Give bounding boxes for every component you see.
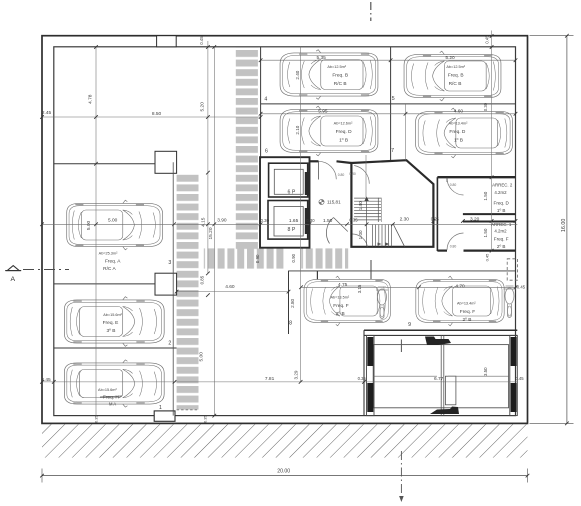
svg-text:1º B: 1º B [339, 138, 348, 144]
svg-text:6 P: 6 P [288, 190, 296, 196]
svg-text:Ab=12.5m²: Ab=12.5m² [327, 65, 346, 69]
svg-text:0.85: 0.85 [200, 275, 205, 284]
svg-text:5.95: 5.95 [318, 108, 328, 114]
svg-text:Freq. F: Freq. F [494, 237, 509, 242]
left door jambs (black) [367, 337, 373, 366]
motorcycle 2 [504, 286, 516, 318]
vertical dim line x207.9 [207, 41, 209, 273]
global horizontal dimension line y223.5 [42, 223, 517, 225]
left bay divider y284 [54, 283, 155, 285]
svg-text:R/C B: R/C B [449, 81, 462, 87]
svg-text:1.50: 1.50 [483, 228, 488, 237]
svg-text:ARREC. 2: ARREC. 2 [492, 182, 513, 187]
ARREC.2 door [447, 178, 464, 195]
svg-text:5: 5 [392, 96, 395, 102]
bottom dimension line 20.00 [42, 475, 528, 477]
svg-text:Ab=15.6m²: Ab=15.6m² [98, 388, 117, 392]
svg-text:16.00: 16.00 [561, 219, 567, 233]
parking front edge x173 [172, 162, 174, 415]
stair center line with arrow [366, 198, 368, 247]
svg-text:0.35: 0.35 [358, 376, 367, 381]
staircase lower flight risers [371, 225, 373, 247]
lobby left door arc [354, 166, 369, 184]
svg-text:7: 7 [391, 148, 394, 154]
right door jambs (black) [511, 337, 517, 366]
svg-text:0.90: 0.90 [291, 253, 296, 262]
car bay1 [64, 360, 164, 407]
car bay3 (Freq. A) [67, 200, 163, 250]
machine room top wall [364, 329, 517, 331]
svg-text:Ab=13.4m²: Ab=13.4m² [457, 302, 476, 306]
svg-text:3.20: 3.20 [470, 216, 480, 222]
right dimension line 16.00 [566, 36, 568, 424]
svg-text:4.15: 4.15 [201, 217, 207, 227]
svg-text:0.30: 0.30 [306, 218, 315, 223]
staircase upper flight treads [354, 197, 381, 199]
svg-text:0.25: 0.25 [431, 216, 440, 221]
horizontal dimension line y117 [42, 116, 261, 118]
top car-bay dimension line y60 [261, 59, 516, 61]
svg-text:Freq. D: Freq. D [336, 129, 353, 135]
lower car-bay dimension line y287.5 [301, 286, 517, 288]
car bay7 (Freq. D) [416, 108, 513, 158]
vertical dim line x366 upper [365, 155, 367, 197]
corridor bottom door [326, 218, 347, 244]
ramp hatch band V2 (top vertical ramp) [236, 47, 258, 250]
column top wall [157, 36, 177, 47]
left bay divider y163 [54, 163, 155, 165]
svg-text:4.2m2: 4.2m2 [494, 190, 507, 195]
svg-text:3.90: 3.90 [217, 217, 227, 223]
svg-text:8.50: 8.50 [152, 111, 162, 117]
svg-text:5.00: 5.00 [108, 218, 118, 224]
elevator cab U1 (6P) [269, 163, 308, 197]
svg-text:4.78: 4.78 [88, 94, 94, 104]
svg-text:1.50: 1.50 [483, 191, 488, 200]
svg-text:5.00: 5.00 [86, 221, 92, 231]
svg-text:3.50: 3.50 [483, 367, 488, 376]
svg-text:4.70: 4.70 [455, 284, 465, 290]
svg-text:Freq. D: Freq. D [449, 129, 466, 135]
svg-text:5.20: 5.20 [445, 55, 455, 61]
svg-text:8 P: 8 P [288, 227, 296, 233]
wall x260 top [260, 47, 262, 159]
svg-text:0.45: 0.45 [517, 284, 526, 289]
svg-text:Ab=12.6m²: Ab=12.6m² [334, 122, 353, 126]
lift guide rails [440, 335, 442, 415]
second car-bay dimension line y113.6 [261, 113, 516, 115]
svg-text:Ab=13.5m²: Ab=13.5m² [330, 295, 349, 299]
wall divider x390 [390, 47, 392, 161]
lobby outline [351, 160, 433, 247]
vertical dim line x300.6 [300, 47, 302, 382]
inner wall line [54, 47, 516, 416]
left bay divider y348 [54, 347, 177, 349]
svg-text:1.00: 1.00 [358, 230, 363, 239]
car bay6 (Freq. D) [280, 106, 378, 156]
svg-text:4.75: 4.75 [338, 282, 348, 288]
column mid 2 [155, 273, 177, 295]
svg-text:9: 9 [408, 322, 411, 328]
svg-text:2.30: 2.30 [400, 217, 410, 223]
svg-text:0.35: 0.35 [95, 416, 99, 423]
svg-text:Freq. B: Freq. B [448, 72, 464, 78]
car lift dashed projection [507, 259, 517, 280]
section marker A [7, 266, 19, 271]
wall x288 lower [288, 271, 290, 334]
svg-text:1.40: 1.40 [358, 201, 363, 210]
svg-text:ARREC. 1: ARREC. 1 [491, 222, 512, 227]
ramp hatch band V1 (left vertical ramp) [177, 173, 199, 410]
svg-text:0.80: 0.80 [450, 245, 457, 249]
svg-text:1.50: 1.50 [323, 218, 333, 224]
svg-text:3: 3 [168, 260, 171, 266]
svg-text:0.45: 0.45 [199, 36, 204, 45]
motorcycle 1 [376, 287, 388, 319]
svg-text:Freq. F: Freq. F [333, 303, 349, 309]
svg-text:M A: M A [109, 402, 116, 407]
svg-text:A: A [11, 276, 16, 283]
machine room left wall [363, 330, 365, 415]
elevator shaft walls [260, 157, 310, 248]
elevator doors [305, 172, 309, 195]
svg-text:0.90: 0.90 [255, 254, 260, 263]
svg-text:0.80: 0.80 [450, 183, 457, 187]
lift mechanism top (black) [425, 337, 451, 346]
ARREC.2 storage room walls [437, 176, 515, 178]
corridor top wall with door [310, 160, 319, 162]
svg-text:Ab=15.6m²: Ab=15.6m² [103, 313, 122, 317]
svg-text:20.00: 20.00 [277, 469, 290, 475]
svg-text:4.60: 4.60 [454, 108, 464, 114]
car bay5 (Freq. B) [404, 51, 501, 101]
svg-text:5.20: 5.20 [200, 102, 206, 112]
svg-text:0.45: 0.45 [484, 253, 489, 262]
lift platform rect [445, 376, 456, 405]
perimeter ground hatch strip (bottom) [42, 424, 528, 457]
svg-text:2º B: 2º B [497, 244, 506, 249]
car bay4 (Freq. B) [280, 50, 378, 100]
ARREC.1 door [447, 233, 464, 250]
svg-text:0.30: 0.30 [261, 218, 270, 223]
svg-text:Freq. D: Freq. D [494, 200, 510, 205]
svg-text:6: 6 [265, 149, 268, 155]
svg-text:1.65: 1.65 [289, 218, 299, 224]
stair break diagonal [393, 224, 405, 247]
svg-text:4.60: 4.60 [225, 284, 235, 290]
svg-text:0.80: 0.80 [349, 172, 356, 176]
svg-text:R/C B: R/C B [334, 81, 347, 87]
corridor right wall x433-437 [436, 177, 438, 251]
svg-text:0.45: 0.45 [515, 376, 524, 381]
svg-text:Freq. F: Freq. F [460, 309, 476, 315]
dimension line y382 [42, 381, 517, 383]
corridor top door arc [319, 161, 337, 179]
svg-text:5.00: 5.00 [198, 352, 204, 362]
svg-text:3.29: 3.29 [294, 370, 299, 379]
dimension line y291.7 [177, 291, 289, 293]
vertical dim line x96 [95, 47, 97, 416]
svg-text:0.45: 0.45 [485, 35, 490, 44]
wall stub x317 [316, 271, 318, 280]
svg-text:3º B: 3º B [107, 328, 116, 334]
svg-text:Ab=25.3m²: Ab=25.3m² [99, 252, 118, 256]
ramp hatch band H (horizontal ramp) [204, 248, 284, 268]
vertical dim line x491.6 [491, 31, 493, 252]
svg-text:0.30: 0.30 [483, 102, 488, 111]
column mid 1 [155, 151, 177, 173]
svg-text:Freq. E: Freq. E [103, 320, 119, 326]
platform line [373, 375, 437, 377]
svg-text:Freq. B: Freq. B [332, 72, 348, 78]
car bay8 (Freq. F) [304, 276, 390, 326]
svg-text:1º B: 1º B [497, 208, 506, 213]
svg-text:2.40: 2.40 [295, 70, 300, 79]
svg-text:1º B: 1º B [454, 138, 463, 144]
svg-text:115,81: 115,81 [327, 200, 341, 205]
svg-text:2.45: 2.45 [42, 110, 52, 116]
svg-text:R/C A: R/C A [103, 266, 116, 272]
dim line x405 [405, 104, 407, 160]
svg-text:7.81: 7.81 [265, 376, 275, 382]
car bay9 (Freq. F) [416, 276, 504, 326]
svg-text:3.15: 3.15 [357, 284, 362, 293]
car bay2 [64, 297, 164, 347]
svg-text:6.77: 6.77 [434, 376, 444, 382]
top bays divider y104 [261, 103, 516, 105]
svg-text:0.35: 0.35 [204, 416, 208, 423]
svg-text:2.45: 2.45 [41, 377, 51, 383]
svg-text:2: 2 [168, 341, 171, 347]
door leaf below lobby [370, 260, 372, 279]
svg-text:8: 8 [289, 321, 292, 327]
svg-text:4: 4 [264, 96, 267, 102]
svg-text:0.35: 0.35 [349, 218, 358, 223]
level marker symbol [319, 199, 324, 204]
ramp band V1 dashed end [177, 409, 199, 411]
lower bays top line y271 [289, 270, 516, 272]
column bottom wall [154, 411, 175, 421]
svg-text:2º B: 2º B [336, 311, 345, 317]
svg-text:5.35: 5.35 [317, 55, 327, 61]
svg-text:15.20: 15.20 [208, 227, 214, 239]
svg-text:Ab=12.5m²: Ab=12.5m² [446, 65, 465, 69]
ARREC.1 storage room walls [463, 221, 516, 223]
svg-text:4.2m2: 4.2m2 [494, 229, 507, 234]
svg-text:2.80: 2.80 [290, 298, 295, 307]
strike through Freq. H [100, 396, 122, 397]
elevator cab U2 (8P) [268, 201, 308, 240]
axis centerline bottom (lift) [400, 340, 402, 353]
lobby bottom-left door arc [353, 234, 368, 246]
svg-text:Ab=13.4m²: Ab=13.4m² [449, 122, 468, 126]
svg-text:2º B: 2º B [463, 317, 472, 323]
svg-text:Freq. A: Freq. A [105, 258, 121, 264]
machine room inner frame [373, 345, 508, 408]
svg-text:2.10: 2.10 [295, 125, 300, 134]
svg-text:1: 1 [159, 405, 162, 411]
lift mechanism bottom (black) [430, 407, 459, 415]
svg-text:Freq. H: Freq. H [103, 395, 120, 401]
stair stringer [377, 198, 379, 222]
outer wall [42, 36, 528, 424]
svg-text:0.80: 0.80 [338, 173, 345, 177]
vertical dim line x214.3 [213, 47, 215, 416]
axis centerline top [370, 2, 372, 21]
